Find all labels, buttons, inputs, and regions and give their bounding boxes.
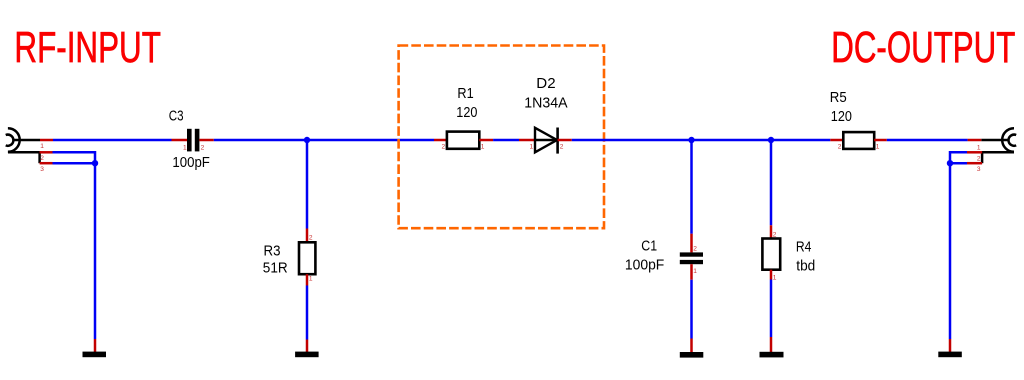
svg-text:R4: R4 bbox=[796, 240, 812, 256]
wire stub right ground bbox=[949, 339, 952, 353]
svg-text:C3: C3 bbox=[169, 109, 184, 125]
connector X2 pin 3 lead bbox=[981, 151, 984, 163]
connector X2 pin stub 1 bbox=[968, 139, 982, 142]
wire shield row2 bbox=[53, 152, 96, 163]
svg-text:1: 1 bbox=[773, 274, 777, 281]
svg-text:R5: R5 bbox=[830, 90, 847, 106]
diode D2 stub 2 bbox=[558, 139, 572, 142]
wire R5 to output connector bbox=[887, 139, 968, 142]
resistor R5 stub 2 bbox=[830, 139, 843, 142]
wire bus to C1 bbox=[690, 140, 693, 234]
svg-text:1: 1 bbox=[693, 268, 697, 275]
svg-text:2: 2 bbox=[309, 235, 313, 242]
svg-text:51R: 51R bbox=[263, 260, 288, 276]
capacitor C3 stub 1 bbox=[172, 139, 188, 142]
connector X1 pin 1 lead bbox=[14, 139, 41, 142]
svg-text:D2: D2 bbox=[536, 76, 555, 92]
svg-text:1: 1 bbox=[40, 143, 44, 150]
svg-text:2: 2 bbox=[40, 155, 44, 162]
connector X1 pin stub 3 bbox=[40, 162, 53, 165]
wire D2 to R5 bbox=[572, 139, 831, 142]
connector X2 pin stub 3 bbox=[967, 162, 982, 165]
ground symbol R3 bbox=[295, 352, 319, 358]
capacitor C1 plate bottom bbox=[680, 260, 703, 264]
ground symbol right bbox=[938, 352, 962, 358]
connector X1 pin stub 1 bbox=[40, 139, 53, 142]
svg-text:C1: C1 bbox=[641, 239, 657, 255]
wire shield row3 bbox=[53, 162, 96, 165]
wire bus to R3 bbox=[306, 140, 309, 229]
diode D2 cathode bar bbox=[556, 128, 559, 154]
ground symbol left bbox=[83, 352, 107, 358]
connector X1 pin 3 lead bbox=[38, 151, 41, 163]
resistor R1 stub 2 bbox=[434, 139, 447, 142]
svg-text:120: 120 bbox=[831, 109, 852, 125]
connector X1 (RF input jack) body arcs bbox=[6, 128, 20, 152]
wire bus to R4 bbox=[770, 140, 773, 225]
svg-text:1: 1 bbox=[183, 145, 187, 152]
resistor R3 stub 1 bbox=[306, 274, 309, 285]
svg-text:100pF: 100pF bbox=[625, 258, 665, 274]
junction node C1 top bbox=[688, 137, 694, 143]
ground symbol R4 bbox=[760, 352, 784, 358]
resistor R4 stub 1 bbox=[770, 270, 773, 280]
wire stub C1 ground bbox=[690, 339, 693, 353]
svg-text:2: 2 bbox=[773, 232, 777, 239]
svg-text:2: 2 bbox=[560, 144, 564, 151]
resistor R5 stub 1 bbox=[874, 139, 887, 142]
wire output shield row2 bbox=[950, 152, 967, 163]
ground symbol C1 bbox=[680, 352, 704, 358]
wire stub R3 ground bbox=[306, 340, 309, 353]
svg-text:DC-OUTPUT: DC-OUTPUT bbox=[831, 24, 1015, 72]
svg-text:1N34A: 1N34A bbox=[524, 95, 568, 111]
diode D2 triangle bbox=[535, 128, 557, 153]
wire C1 to ground bbox=[690, 280, 693, 339]
wire left shield to ground bbox=[94, 163, 97, 339]
connector X2 (DC output jack) body arcs bbox=[1002, 128, 1016, 152]
resistor R4 stub 2 bbox=[770, 225, 773, 238]
svg-text:RF-INPUT: RF-INPUT bbox=[14, 24, 161, 72]
capacitor C1 stub 2 bbox=[690, 234, 693, 253]
svg-text:3: 3 bbox=[977, 166, 981, 173]
resistor R4 body bbox=[762, 239, 780, 270]
capacitor C3 stub 2 bbox=[199, 139, 213, 142]
junction node R3 top bbox=[304, 137, 310, 143]
detector module dashed outline box bbox=[399, 46, 604, 229]
connector X2 pin 2 lead bbox=[982, 151, 1014, 154]
svg-text:1: 1 bbox=[876, 144, 880, 151]
junction node R4 top bbox=[768, 137, 774, 143]
svg-text:2: 2 bbox=[977, 155, 981, 162]
svg-text:R1: R1 bbox=[457, 86, 473, 102]
connector X2 pin 1 lead bbox=[981, 139, 1008, 142]
resistor R3 body bbox=[299, 242, 315, 274]
svg-text:1: 1 bbox=[977, 145, 981, 152]
svg-text:1: 1 bbox=[481, 144, 485, 151]
wire R3 to ground bbox=[306, 286, 309, 340]
wire stub left ground bbox=[94, 339, 97, 353]
wire right shield to ground bbox=[949, 163, 952, 339]
svg-text:3: 3 bbox=[40, 166, 44, 173]
wire stub R4 ground bbox=[770, 337, 773, 353]
resistor R3 stub 2 bbox=[306, 229, 309, 243]
wire input bus to C3 bbox=[53, 139, 172, 142]
svg-text:1: 1 bbox=[530, 144, 534, 151]
wire R1 to D2 bbox=[493, 139, 519, 142]
resistor R1 stub 1 bbox=[479, 139, 493, 142]
junction right shield bbox=[947, 160, 953, 166]
svg-text:R3: R3 bbox=[264, 243, 281, 259]
svg-text:100pF: 100pF bbox=[172, 155, 210, 171]
connector X1 pin stub 2 bbox=[40, 151, 53, 154]
diode D2 internal lead bbox=[535, 139, 557, 141]
wire R4 to ground bbox=[770, 280, 773, 338]
resistor R5 body bbox=[843, 132, 874, 149]
svg-text:2: 2 bbox=[201, 145, 205, 152]
capacitor C3 plate right bbox=[195, 129, 200, 152]
wire output shield row3 bbox=[950, 162, 967, 165]
wire C3 to R1 bbox=[214, 139, 434, 142]
svg-text:1: 1 bbox=[309, 275, 313, 282]
resistor R1 body bbox=[447, 132, 479, 149]
svg-text:tbd: tbd bbox=[796, 259, 815, 275]
junction left shield bbox=[92, 160, 98, 166]
svg-text:2: 2 bbox=[693, 246, 697, 253]
diode D2 stub 1 bbox=[519, 139, 535, 142]
capacitor C3 plate left bbox=[187, 129, 192, 152]
svg-text:2: 2 bbox=[838, 144, 842, 151]
connector X2 pin stub 2 bbox=[967, 151, 982, 154]
connector X1 pin 2 lead bbox=[8, 151, 40, 154]
capacitor C1 stub 1 bbox=[690, 264, 693, 280]
svg-text:120: 120 bbox=[456, 105, 477, 121]
capacitor C1 plate top bbox=[680, 252, 703, 256]
svg-text:2: 2 bbox=[442, 144, 446, 151]
